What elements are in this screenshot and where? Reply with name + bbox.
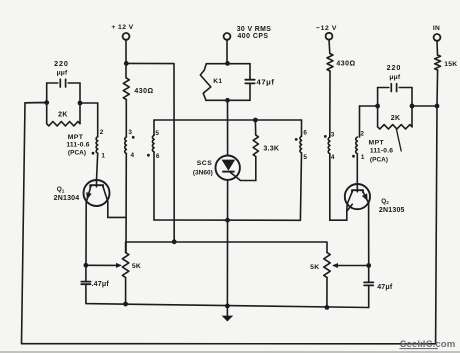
svg-text:5K: 5K [132,263,141,270]
svg-text:μμf: μμf [57,70,68,77]
svg-text:2N1305: 2N1305 [379,207,405,214]
svg-text:4: 4 [331,154,335,161]
svg-text:400 CPS: 400 CPS [237,33,268,40]
svg-text:220: 220 [387,63,402,72]
svg-text:MPT: MPT [68,134,84,141]
svg-text:220: 220 [54,59,69,68]
svg-text:−12 V: −12 V [316,25,337,32]
svg-text:MPT: MPT [369,139,385,146]
svg-text:111-0.6: 111-0.6 [66,142,89,149]
svg-text:1: 1 [361,154,365,161]
svg-text:3: 3 [128,129,132,136]
svg-text:K1: K1 [213,78,222,85]
svg-text:3.3K: 3.3K [263,145,279,153]
svg-text:5: 5 [303,154,307,161]
svg-text:IN: IN [433,25,440,32]
svg-text:μμf: μμf [389,74,400,81]
svg-text:2K: 2K [391,115,401,122]
svg-text:(PCA): (PCA) [370,156,388,163]
svg-text:5K: 5K [310,264,319,271]
svg-text:+ 12 V: + 12 V [111,24,133,31]
svg-text:6: 6 [156,153,160,160]
svg-text:2N1304: 2N1304 [54,195,80,202]
svg-text:3: 3 [331,132,335,139]
svg-text:430Ω: 430Ω [336,60,355,67]
svg-text:SCS: SCS [197,160,212,167]
svg-text:15K: 15K [444,61,457,68]
svg-text:6: 6 [303,130,307,137]
svg-text:(PCA): (PCA) [68,150,86,157]
svg-text:2: 2 [100,129,104,136]
svg-text:47μf: 47μf [257,78,275,87]
svg-text:4: 4 [131,152,135,159]
svg-text:(3N60): (3N60) [193,170,213,177]
svg-text:30 V RMS: 30 V RMS [237,26,272,33]
svg-text:430Ω: 430Ω [134,88,153,95]
svg-text:2K: 2K [58,112,68,119]
svg-text:111-0.6: 111-0.6 [370,147,393,154]
svg-text:47μf: 47μf [377,284,393,291]
svg-text:.47μf: .47μf [92,281,110,288]
svg-text:5: 5 [155,130,159,137]
svg-text:1: 1 [101,152,105,159]
svg-text:2: 2 [360,131,364,138]
